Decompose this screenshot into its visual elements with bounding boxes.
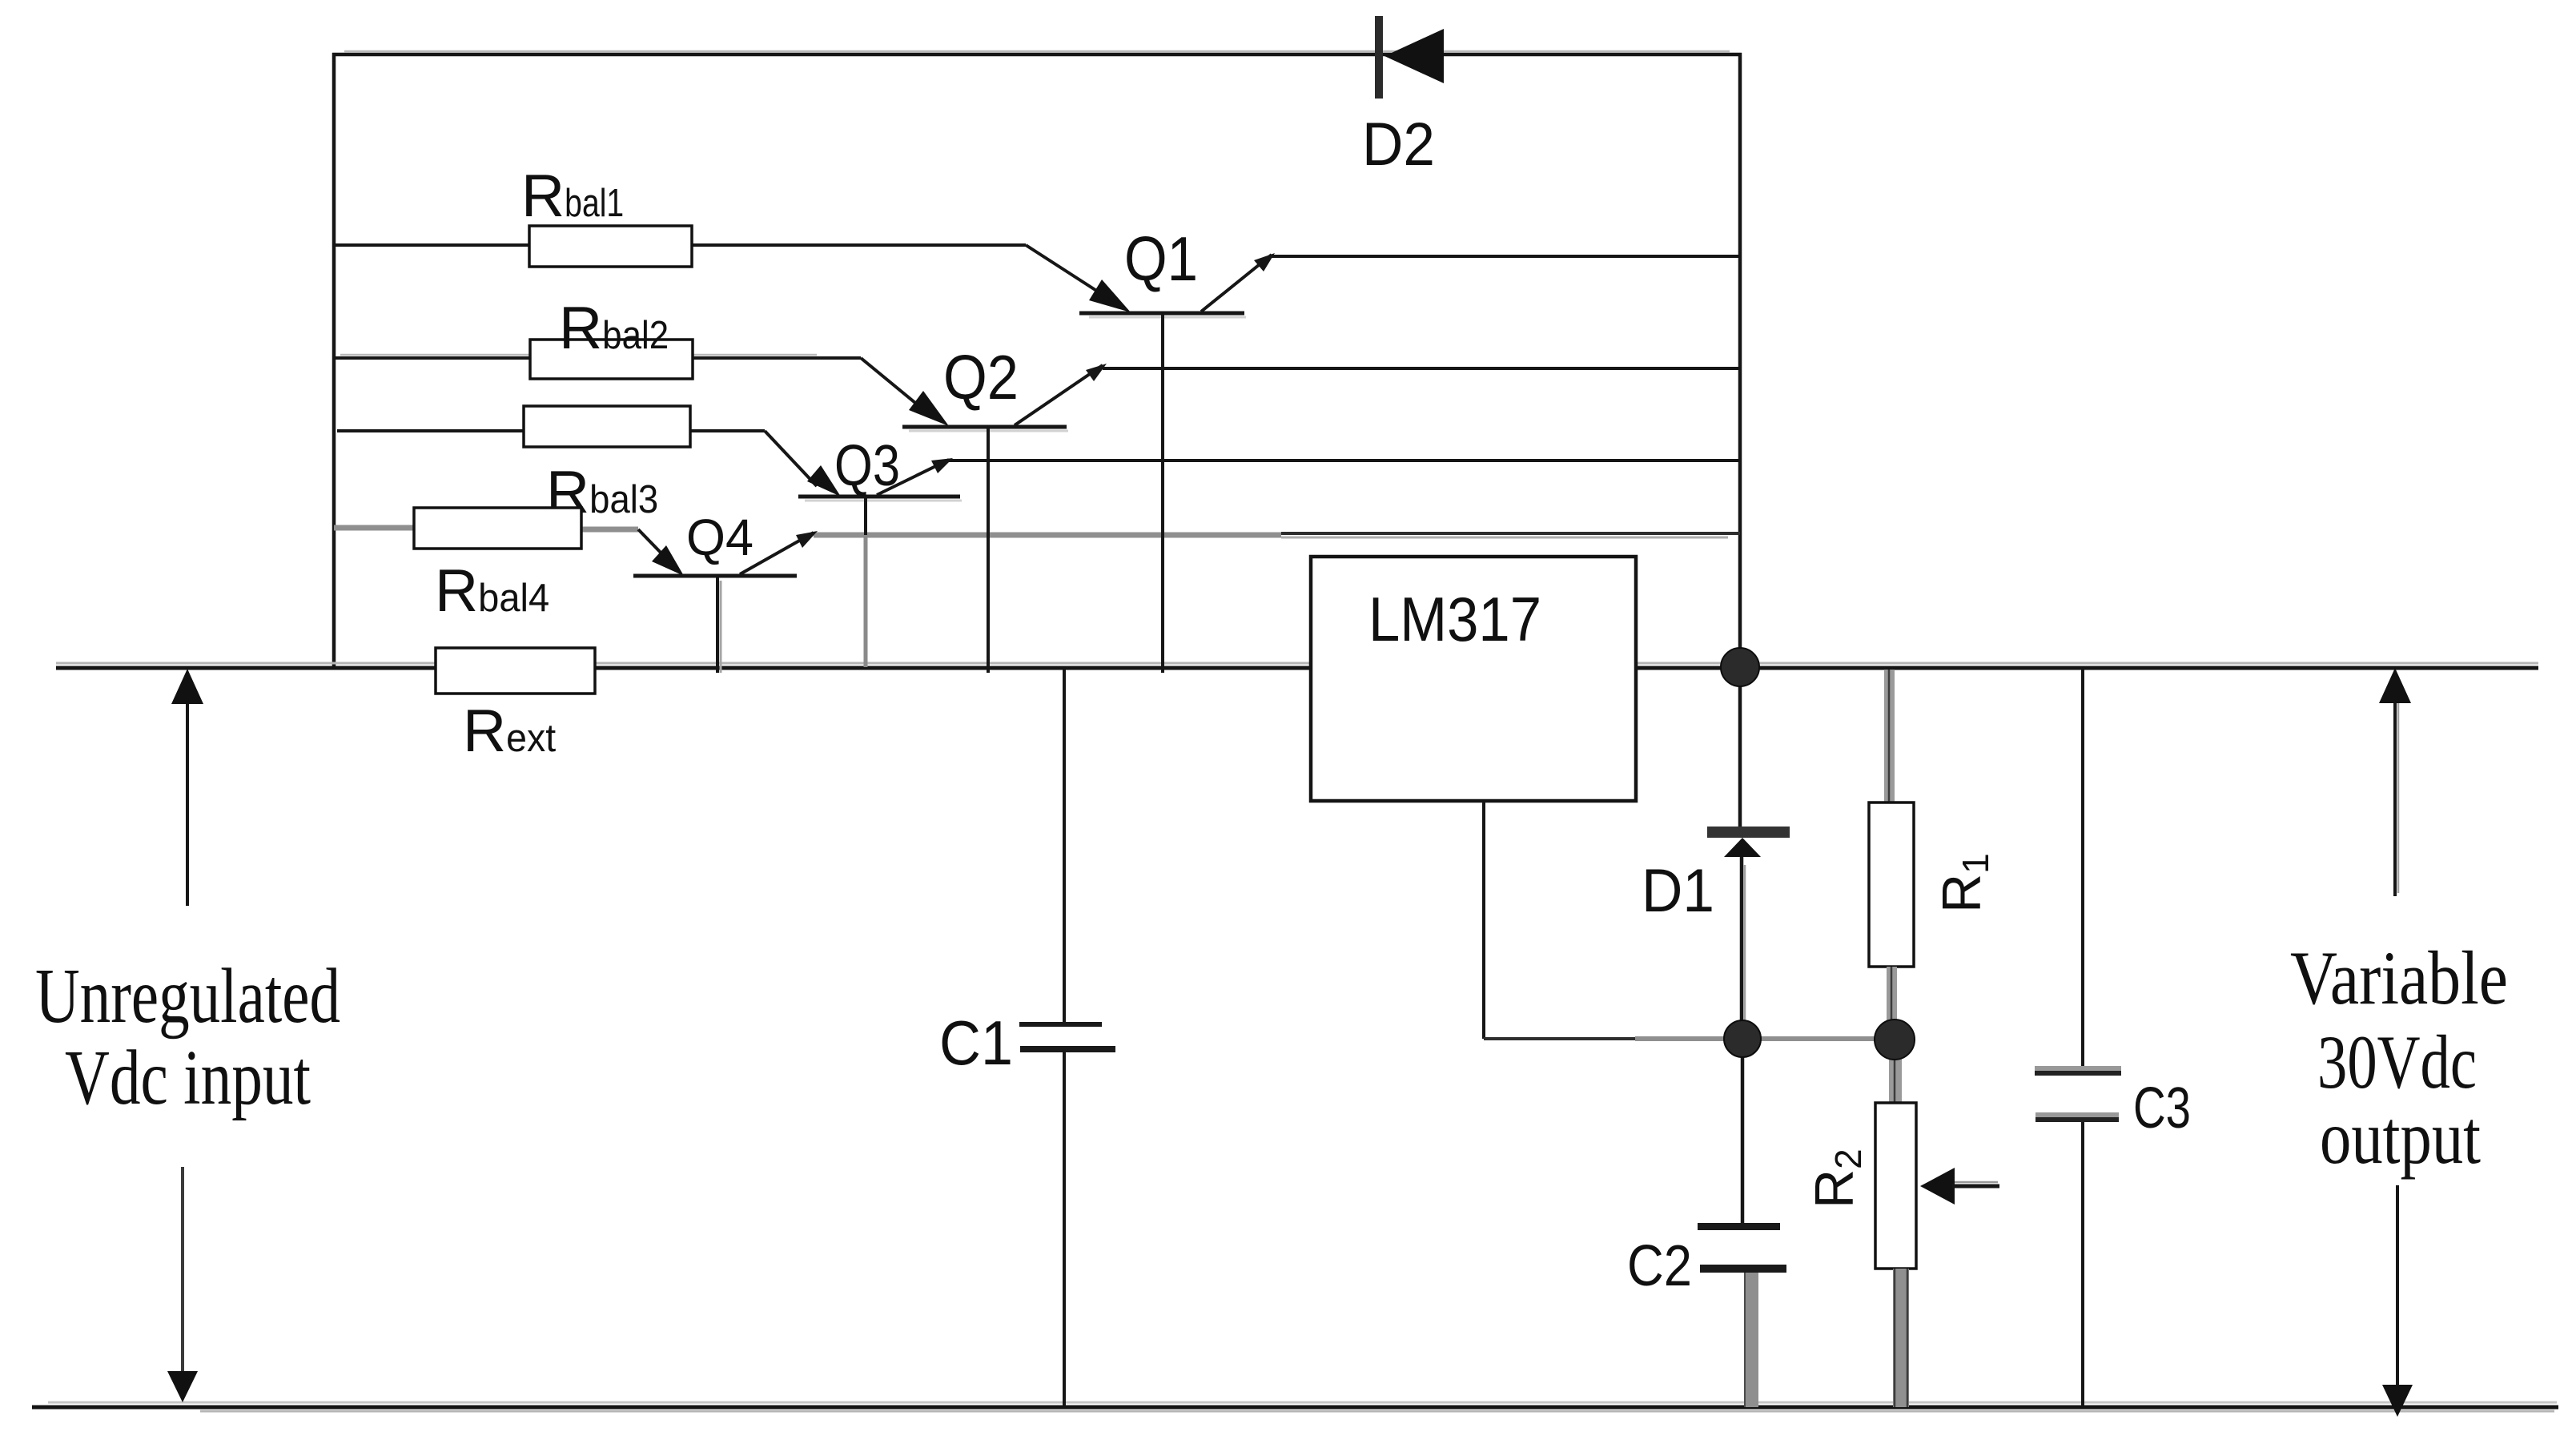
- potentiometer R2 wiper arrowhead: [1920, 1168, 1955, 1205]
- svg-text:C3: C3: [2133, 1076, 2191, 1140]
- wire: D1 anode down to node B: [1740, 857, 1744, 1039]
- node B ADJ/D1 junction dot: [1724, 1020, 1761, 1057]
- svg-text:R2: R2: [1804, 1148, 1869, 1209]
- capacitor C3 top plate: [2035, 1066, 2121, 1072]
- wire: Rbal4 row right segment to Q4 emitter (gray): [581, 527, 638, 533]
- transistor Q1 base vertical wire to rail: [1161, 313, 1164, 673]
- capacitor C2 bottom plate: [1700, 1265, 1786, 1273]
- resistor R1 box: [1869, 802, 1914, 967]
- wire: Rbal1 row left segment: [334, 243, 529, 247]
- input down arrowhead: [167, 1371, 198, 1402]
- input down arrow line: [181, 1167, 184, 1371]
- wire: right vertical bus: [1738, 53, 1742, 667]
- transistor Q2 collector diagonal: [1015, 365, 1103, 425]
- capacitor C3 bottom plate: [2035, 1112, 2119, 1118]
- resistor Rbal1 box: [529, 226, 692, 267]
- transistor Q2 collector arrow tick: [1086, 364, 1107, 381]
- output up arrow line: [2393, 677, 2397, 896]
- wire: bottom ground rail: [32, 1406, 2558, 1410]
- svg-text:Rext: Rext: [463, 697, 557, 764]
- svg-text:R1: R1: [1931, 853, 1996, 913]
- input up arrow line: [186, 677, 189, 906]
- capacitor C1 top plate: [1019, 1022, 1102, 1027]
- output up arrowhead: [2379, 668, 2411, 703]
- wire: node C down to R2 top (thick gray): [1889, 1057, 1902, 1104]
- node C R1/R2 junction dot: [1875, 1020, 1915, 1060]
- transistor Q1 base bar: [1079, 312, 1244, 316]
- transistor Q1 emitter arrowhead: [1089, 280, 1131, 312]
- svg-text:C2: C2: [1627, 1234, 1692, 1298]
- wire: node A to D1 cathode: [1738, 667, 1742, 827]
- capacitor C1 bottom plate: [1020, 1046, 1115, 1052]
- svg-text:Rbal2: Rbal2: [559, 294, 669, 361]
- wire: main input/output rail: [56, 666, 2538, 670]
- svg-text:LM317: LM317: [1368, 584, 1541, 654]
- transistor Q3 base vertical wire lower gray part to rail: [864, 535, 868, 667]
- wire: Q1 collector wire to right bus: [1272, 255, 1740, 258]
- svg-text:C1: C1: [939, 1008, 1013, 1078]
- wire: Rbal2 row left segment: [334, 356, 530, 360]
- capacitor C2 top plate: [1698, 1223, 1780, 1230]
- svg-text:Rbal1: Rbal1: [521, 162, 624, 229]
- wire: Q2 collector wire to right bus: [1103, 367, 1740, 370]
- wire: Q4 collector wire dark part to right bus: [1281, 532, 1740, 535]
- wire: ADJ horizontal gray part to node C: [1635, 1036, 1879, 1041]
- transistor Q2 emitter diagonal: [861, 358, 929, 414]
- transistor Q3 base bar: [798, 495, 960, 499]
- wire: R1 bottom to node C (thick gray): [1887, 967, 1897, 1043]
- transistor Q4 emitter diagonal: [638, 529, 665, 557]
- potentiometer R2 wiper line: [1952, 1185, 1999, 1189]
- wire: C2 to ground rail (thick gray): [1744, 1273, 1758, 1407]
- svg-text:D2: D2: [1362, 111, 1435, 179]
- transistor Q3 emitter arrowhead: [807, 465, 841, 497]
- wire: bottom ground rail gray fringe bottom: [200, 1410, 2554, 1413]
- wire: Rbal4 row left segment (gray): [334, 525, 414, 531]
- wire: R2 bottom to ground rail (thick gray): [1893, 1269, 1909, 1407]
- input up arrowhead: [171, 669, 203, 704]
- transistor Q3 collector diagonal: [877, 460, 949, 495]
- wire: bottom ground rail gray fringe top: [48, 1402, 2557, 1404]
- wire: ADJ horizontal dark part: [1484, 1037, 1635, 1040]
- svg-text:Q1: Q1: [1124, 223, 1198, 294]
- svg-text:Q4: Q4: [686, 509, 754, 566]
- resistor R2 box: [1875, 1103, 1916, 1269]
- wire: rail down to C3 top plate: [2081, 668, 2084, 1069]
- diode D2 arrow triangle: [1384, 29, 1444, 83]
- diode D1 triangle: [1724, 838, 1761, 857]
- transistor Q3 base vertical wire upper black part: [864, 497, 867, 535]
- wire: main input rail (gray fringe): [56, 662, 2538, 665]
- wire: rail down to C1 top plate: [1063, 668, 1066, 1024]
- wire: node B down to C2 top plate: [1741, 1039, 1745, 1225]
- diode D1 cathode bar: [1707, 827, 1790, 838]
- wire: Q3 collector wire to right bus: [949, 459, 1740, 462]
- resistor Rbal3 box: [524, 406, 690, 447]
- transistor Q2 base vertical wire to rail: [987, 427, 990, 673]
- transistor Q2 emitter arrowhead: [909, 391, 949, 426]
- transistor Q3 emitter diagonal: [765, 431, 817, 486]
- transistor Q4 base bar: [633, 574, 797, 578]
- svg-text:Q3: Q3: [834, 434, 900, 498]
- output down arrowhead: [2382, 1385, 2413, 1417]
- wire: C3 bottom plate to ground rail: [2081, 1122, 2084, 1407]
- resistor Rext box: [436, 648, 595, 694]
- svg-text:Unregulated: Unregulated: [35, 953, 340, 1039]
- svg-text:30Vdc: 30Vdc: [2317, 1020, 2477, 1104]
- transistor Q2 base bar: [902, 425, 1067, 429]
- regulator U1 LM317 box: [1311, 557, 1636, 801]
- wire: Rbal1 row right segment to Q1 emitter: [692, 243, 1026, 247]
- svg-text:Vdc input: Vdc input: [65, 1035, 311, 1120]
- wire: top bus from left bus to right bus: [332, 53, 1742, 57]
- transistor Q1 collector diagonal: [1201, 255, 1272, 312]
- transistor Q1 emitter diagonal: [1026, 245, 1111, 300]
- svg-text:output: output: [2320, 1095, 2481, 1180]
- svg-text:Q2: Q2: [943, 342, 1019, 412]
- wire: Q4 collector wire gray part: [814, 533, 1281, 538]
- resistor Rbal4 box: [414, 508, 581, 549]
- transistor Q3 collector arrow tick: [931, 458, 953, 473]
- wire: Rbal2 row right segment to Q2 emitter: [693, 356, 861, 360]
- transistor Q4 collector diagonal: [740, 533, 814, 574]
- transistor Q4 emitter arrowhead: [652, 545, 684, 576]
- transistor Q4 base vertical wire to rail: [716, 576, 719, 673]
- wire: C1 bottom plate to ground rail: [1063, 1052, 1066, 1407]
- node A output junction dot: [1721, 648, 1759, 686]
- wire: left vertical bus: [332, 53, 336, 669]
- wire: Rbal3 row right segment to Q3 emitter: [690, 429, 765, 432]
- wire: rail to R1 top (thick gray): [1884, 670, 1895, 804]
- svg-text:D1: D1: [1642, 857, 1714, 925]
- diode D2 cathode bar: [1375, 16, 1383, 99]
- transistor Q4 collector arrow tick: [796, 531, 818, 548]
- resistor Rbal2 box: [530, 340, 693, 379]
- wire: LM317 ADJ pin vertical: [1482, 801, 1485, 1039]
- output down arrow line: [2396, 1185, 2399, 1394]
- transistor Q1 collector arrow tick: [1254, 253, 1275, 271]
- wire: Rbal3 row left segment: [337, 429, 524, 432]
- svg-text:Rbal4: Rbal4: [435, 557, 549, 624]
- svg-text:Variable: Variable: [2290, 935, 2508, 1020]
